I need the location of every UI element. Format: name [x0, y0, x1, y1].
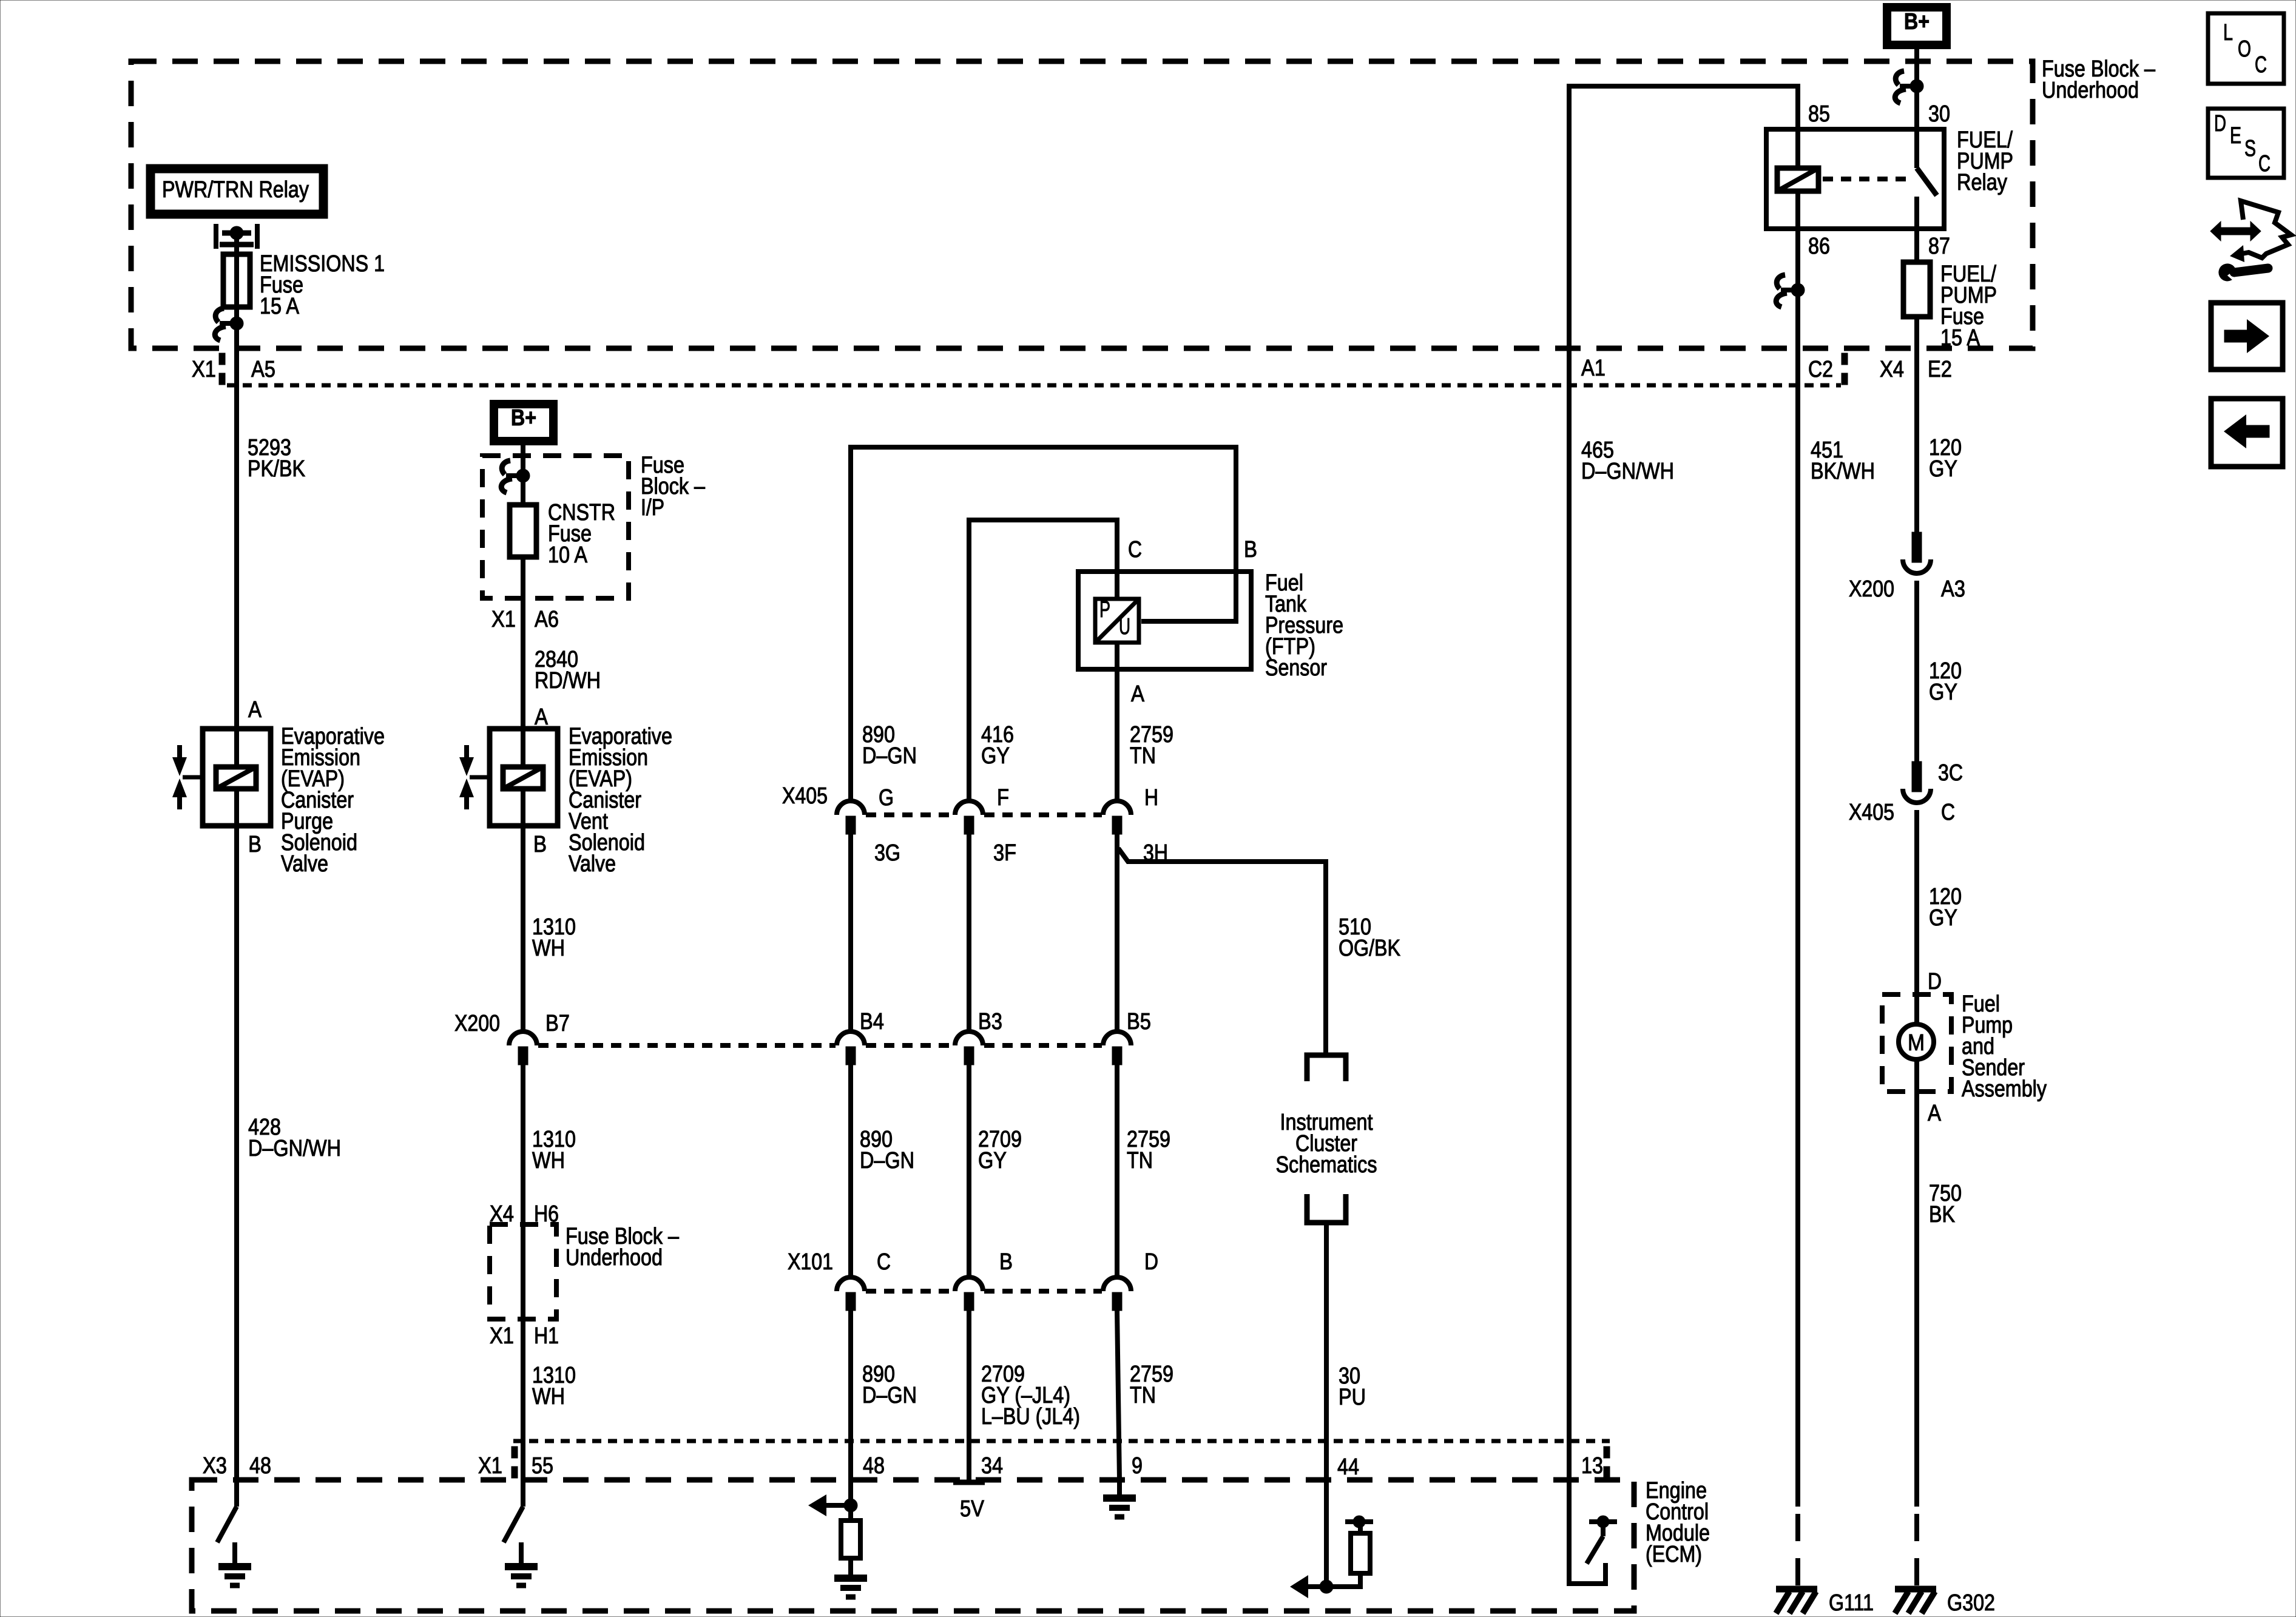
wire label 750 BK [1929, 1181, 1962, 1227]
svg-text:GY: GY [1929, 680, 1957, 705]
wire 750 dashed tail to G302 [1914, 1514, 1919, 1589]
svg-text:TN: TN [1127, 1148, 1153, 1173]
svg-text:3F: 3F [993, 840, 1016, 866]
connector label X1 A5 [192, 357, 275, 382]
fuse block underhood label [2042, 56, 2156, 103]
wire 2759 TN to ECM [1117, 1311, 1119, 1480]
sidebar jumper harness icon [2210, 201, 2291, 281]
wire label 2759 TN row2 [1127, 1127, 1170, 1173]
svg-text:X3: X3 [203, 1453, 227, 1479]
svg-text:GY: GY [1929, 905, 1957, 931]
sidebar DESC icon [2208, 109, 2284, 178]
connector row X200 dashed link [538, 1043, 836, 1048]
relay internal dashed link [1823, 177, 1911, 181]
sidebar back arrow icon [2211, 399, 2283, 467]
connector dash pair X1-55 [512, 1447, 518, 1478]
off-page connector from instrument cluster bottom [1307, 1194, 1346, 1223]
connector row X101 dashed link [866, 1289, 954, 1294]
svg-text:G: G [879, 785, 894, 811]
relay coil [1777, 129, 1818, 229]
svg-text:D–GN/WH: D–GN/WH [248, 1136, 341, 1161]
wire label 2709 GY row2 [978, 1127, 1022, 1173]
connector dash pair C2 [1842, 353, 1848, 385]
wire 451 from relay 86 down [1795, 229, 1800, 1507]
FUEL/PUMP relay label [1957, 127, 2013, 195]
fuel pump and sender label [1962, 991, 2047, 1102]
svg-text:E2: E2 [1928, 357, 1952, 382]
connector X405 F [955, 801, 983, 834]
wire label 30 PU [1339, 1363, 1366, 1410]
fuel tank pressure sensor box [1078, 572, 1251, 669]
wire 451 dashed tail to G111 [1795, 1514, 1800, 1589]
connector X200 A3 [1903, 532, 1931, 573]
svg-text:B5: B5 [1127, 1009, 1151, 1035]
EVAP purge valve label [281, 724, 385, 877]
fuse block output dotted line [227, 383, 1841, 388]
ECM pin label X1 55 [478, 1453, 553, 1479]
svg-text:H: H [1144, 785, 1158, 811]
fuse block underhood pass-through label [566, 1224, 680, 1271]
svg-text:O: O [2238, 36, 2251, 62]
svg-text:P: P [1099, 597, 1110, 623]
EVAP canister purge solenoid valve [172, 729, 271, 826]
svg-text:A3: A3 [1941, 576, 1965, 602]
wire label 890 D-GN row2 [860, 1127, 914, 1173]
wire 120 GY between connectors [1914, 581, 1919, 766]
svg-text:86: 86 [1808, 234, 1830, 259]
connector label X4 H6 [490, 1201, 559, 1227]
svg-text:Sensor: Sensor [1265, 655, 1327, 681]
svg-text:B: B [533, 832, 547, 857]
wire label 2759 TN row3 [1130, 1362, 1173, 1408]
connector label X1 A6 [491, 607, 559, 632]
svg-text:I/P: I/P [641, 495, 664, 521]
svg-text:L–BU (JL4): L–BU (JL4) [981, 1404, 1080, 1430]
ground G302 [1895, 1589, 1936, 1613]
wire from CNSTR fuse to EVAP vent valve [521, 557, 525, 1030]
svg-text:Valve: Valve [569, 851, 616, 877]
ECM internal driver switch pin 13 [1569, 1480, 1617, 1584]
svg-text:PWR/TRN Relay: PWR/TRN Relay [162, 177, 309, 203]
svg-text:D–GN: D–GN [862, 1383, 917, 1408]
svg-text:34: 34 [981, 1453, 1003, 1479]
svg-text:E: E [2230, 123, 2241, 149]
svg-text:C2: C2 [1808, 357, 1833, 382]
svg-text:C: C [2258, 151, 2271, 177]
svg-text:B4: B4 [860, 1009, 884, 1035]
wire 890 D-GN lower segment [848, 1065, 853, 1276]
PWR/TRN relay label box [150, 169, 323, 214]
svg-text:A6: A6 [535, 607, 559, 632]
svg-text:X200: X200 [454, 1011, 500, 1036]
wire 750 BK from pump down [1914, 1059, 1919, 1507]
svg-text:Valve: Valve [281, 851, 328, 877]
pin label X4 E2 [1880, 357, 1952, 382]
svg-text:TN: TN [1130, 1383, 1156, 1408]
svg-text:B+: B+ [1904, 9, 1930, 35]
connector X405 H [1103, 801, 1131, 834]
fuel tank pressure sensor label [1265, 570, 1343, 681]
wire 890 D-GN to ECM [848, 1311, 853, 1480]
ECM 5V reference terminator pin 34 [953, 1482, 985, 1522]
wire through FTP sensor to pin A [1115, 601, 1119, 800]
svg-text:85: 85 [1808, 101, 1830, 127]
svg-text:15 A: 15 A [260, 294, 300, 319]
svg-text:WH: WH [532, 1148, 565, 1173]
svg-text:OG/BK: OG/BK [1339, 936, 1400, 961]
relay switch blade [1917, 168, 1937, 195]
svg-text:PK/BK: PK/BK [248, 456, 305, 482]
wire 2709 GY mid segment [967, 834, 971, 1030]
svg-text:3G: 3G [874, 840, 900, 866]
wire label 2840 RD/WH [535, 647, 601, 694]
svg-text:X1: X1 [490, 1323, 514, 1349]
wire 2709 GY to ECM [967, 1311, 971, 1480]
svg-text:10 A: 10 A [548, 542, 588, 568]
connector X200 B4 [837, 1031, 865, 1065]
svg-text:30: 30 [1928, 101, 1950, 127]
wire 890 D-GN mid segment [848, 834, 853, 1030]
svg-text:X101: X101 [788, 1249, 833, 1275]
svg-text:D–GN: D–GN [862, 743, 917, 769]
wire 416 GY top run to FTP sensor C [969, 520, 1117, 800]
wire label 2709 GY JL4 row3 [981, 1362, 1080, 1430]
svg-text:5V: 5V [960, 1496, 985, 1522]
svg-text:C: C [1128, 537, 1142, 562]
ECM internal switch to ground pin 55 [504, 1480, 538, 1585]
svg-text:44: 44 [1337, 1454, 1359, 1480]
ECM internal ground pin 9 [1103, 1480, 1136, 1517]
svg-text:48: 48 [249, 1453, 271, 1479]
svg-text:D–GN: D–GN [860, 1148, 914, 1173]
svg-text:Underhood: Underhood [2042, 78, 2139, 103]
svg-text:55: 55 [532, 1453, 553, 1479]
wire 120 GY from fuse to pump [1914, 317, 1919, 534]
svg-text:B: B [999, 1249, 1013, 1275]
clip hook below EMISSIONS fuse [215, 308, 243, 340]
wire 890 D-GN top run to FTP sensor B [851, 447, 1236, 800]
off-page connector to instrument cluster top [1307, 1055, 1346, 1081]
svg-text:GY: GY [981, 743, 1010, 769]
battery feed B+ box left [494, 404, 553, 441]
svg-text:X1: X1 [192, 357, 216, 382]
connector X101 B [955, 1277, 983, 1311]
sidebar forward arrow icon [2211, 303, 2283, 370]
ECM internal switch to ground pin 48 [217, 1480, 251, 1585]
wire label 5293 PK/BK [248, 435, 305, 482]
clip hook at CNSTR fuse feed [501, 461, 530, 493]
fuse label FUEL/PUMP 15 A [1940, 262, 1997, 351]
engine control module dashed outline [192, 1480, 1634, 1611]
svg-text:C: C [2255, 52, 2267, 78]
svg-text:D–GN/WH: D–GN/WH [1581, 459, 1674, 484]
wire 1310 WH mid segment [521, 1065, 525, 1480]
ECM input dotted line [513, 1439, 1610, 1443]
connector X101 C [837, 1277, 865, 1311]
svg-text:RD/WH: RD/WH [535, 668, 601, 694]
wire 2709 GY lower segment [967, 1065, 971, 1276]
connector label X405 C [1849, 800, 1955, 825]
svg-text:TN: TN [1130, 743, 1156, 769]
wire label 2759 TN row1 [1130, 722, 1173, 769]
svg-text:B3: B3 [978, 1009, 1002, 1035]
bus tap bracket for PWR/TRN relay [216, 224, 257, 249]
ECM internal sense resistor pin 44 [1290, 1480, 1373, 1598]
svg-text:A: A [248, 697, 262, 723]
fuse block I/P dashed outline [482, 456, 629, 598]
wire 120 GY to fuel pump [1914, 810, 1919, 1025]
connector X101 D [1103, 1277, 1131, 1311]
svg-text:B7: B7 [545, 1011, 570, 1036]
instrument cluster schematics label [1276, 1110, 1377, 1178]
svg-text:GY: GY [1929, 456, 1957, 482]
svg-text:D: D [1928, 969, 1942, 994]
wire label 510 OG/BK [1339, 914, 1400, 961]
wire 2759 TN mid segment [1115, 834, 1119, 1030]
wire label 120 GY middle [1929, 658, 1962, 705]
fuse FUEL/PUMP [1903, 262, 1930, 317]
fuse label EMISSIONS 1 15 A [260, 251, 385, 319]
wire label 451 BK/WH [1811, 437, 1875, 484]
relay switch output to pin 87 [1914, 197, 1919, 262]
battery feed B+ box top right [1887, 7, 1947, 45]
connector label X200 B7 [454, 1011, 570, 1036]
connector X200 B7 [509, 1031, 537, 1065]
clip hook on wire 451 [1776, 275, 1805, 307]
fuse CNSTR [510, 505, 536, 557]
pressure transducer P/U symbol [1095, 597, 1139, 643]
wire from B+ to relay 30 [1914, 45, 1919, 168]
wire 465 D-GN/WH from ECM 13 up to relay 85 [1569, 86, 1798, 1480]
wire label 120 GY lower [1929, 884, 1962, 931]
fuel pump motor symbol [1899, 1024, 1934, 1059]
svg-text:G302: G302 [1947, 1590, 1995, 1616]
FUEL/PUMP relay box [1766, 129, 1944, 229]
wire from B+ into fuse block I/P [521, 441, 525, 505]
svg-text:D: D [1144, 1249, 1158, 1275]
svg-text:C: C [1941, 800, 1955, 825]
svg-text:L: L [2223, 20, 2233, 46]
ground G111 [1776, 1589, 1817, 1613]
wire label 890 D-GN row1 [862, 722, 917, 769]
svg-text:A5: A5 [251, 357, 275, 382]
connector X405 G [837, 801, 865, 834]
svg-text:H1: H1 [534, 1323, 559, 1349]
connector X200 B3 [955, 1031, 983, 1065]
svg-text:Underhood: Underhood [566, 1245, 663, 1271]
engine control module label [1646, 1478, 1710, 1567]
svg-text:Relay: Relay [1957, 170, 2007, 195]
wire label 465 D-GN/WH [1581, 437, 1674, 484]
connector row X405 dashed link [866, 812, 954, 817]
svg-text:WH: WH [532, 1384, 565, 1409]
wire 30 PU to ECM pin 44 [1324, 1223, 1329, 1480]
wire label 1310 WH middle [532, 1127, 576, 1173]
wire 5293 PK/BK down to EVAP purge valve [234, 385, 239, 1480]
fuse EMISSIONS 1 [223, 254, 250, 307]
connector X405 C [1903, 761, 1931, 803]
connector dash pair 13 [1604, 1447, 1610, 1478]
svg-text:A1: A1 [1581, 356, 1606, 381]
svg-text:13: 13 [1581, 1453, 1603, 1479]
svg-text:U: U [1119, 614, 1130, 640]
svg-text:A: A [1131, 681, 1145, 707]
svg-text:15 A: 15 A [1940, 325, 1980, 351]
svg-text:(ECM): (ECM) [1646, 1542, 1702, 1567]
svg-text:F: F [997, 785, 1009, 811]
fuse label CNSTR 10 A [548, 500, 615, 568]
svg-text:A: A [1928, 1101, 1942, 1126]
connector X200 B5 [1103, 1031, 1131, 1065]
svg-text:X200: X200 [1849, 576, 1894, 602]
svg-text:87: 87 [1928, 234, 1950, 259]
connector label X200 A3 [1849, 576, 1965, 602]
svg-text:PU: PU [1339, 1385, 1366, 1410]
fuse block I/P label [641, 453, 706, 521]
wire 5293 from PWR/TRN tap to fuse block exit [234, 233, 239, 385]
wire label 428 D-GN/WH [248, 1115, 341, 1161]
EVAP vent valve label [569, 724, 672, 877]
svg-text:B: B [1244, 537, 1257, 562]
wire label 1310 WH upper [532, 914, 576, 961]
svg-text:X1: X1 [478, 1453, 502, 1479]
svg-text:B: B [248, 832, 262, 857]
svg-text:M: M [1908, 1030, 1925, 1056]
svg-text:WH: WH [532, 936, 565, 961]
ECM internal pull-down resistor pin 48 [808, 1480, 867, 1597]
wire label 416 GY row1 [981, 722, 1014, 769]
svg-text:GY: GY [978, 1148, 1007, 1173]
connector label X1 H1 [490, 1323, 559, 1349]
svg-text:S: S [2244, 136, 2256, 161]
svg-text:G111: G111 [1829, 1590, 1874, 1616]
svg-text:Assembly: Assembly [1962, 1076, 2047, 1102]
svg-text:D: D [2214, 111, 2226, 137]
connector dash pair X1-A5 [219, 353, 225, 385]
wire 2759 TN lower segment [1115, 1065, 1119, 1276]
fuse block underhood pass-through dashed box [490, 1224, 556, 1319]
svg-text:Schematics: Schematics [1276, 1152, 1377, 1178]
wire label 890 D-GN row3 [862, 1362, 917, 1408]
svg-text:B+: B+ [511, 405, 536, 431]
EVAP canister vent solenoid valve [459, 729, 558, 826]
fuel pump and sender dashed box [1882, 994, 1951, 1092]
sidebar LOC icon [2208, 13, 2284, 84]
branch wire 510 OG/BK to instrument cluster [1118, 848, 1326, 1054]
fuse block underhood dashed outline [131, 61, 2033, 348]
wire label 120 GY upper [1929, 435, 1962, 482]
svg-text:3C: 3C [1938, 760, 1963, 786]
clip hook at relay pin 30 [1895, 71, 1923, 103]
svg-text:X4: X4 [1880, 357, 1904, 382]
svg-text:C: C [877, 1249, 891, 1275]
svg-text:BK: BK [1929, 1202, 1955, 1227]
svg-text:X405: X405 [782, 783, 828, 809]
svg-text:X1: X1 [491, 607, 516, 632]
ECM pin label X3 48 [203, 1453, 271, 1479]
svg-text:9: 9 [1132, 1453, 1143, 1479]
svg-text:BK/WH: BK/WH [1811, 459, 1875, 484]
svg-text:X405: X405 [1849, 800, 1894, 825]
wire label 1310 WH lower [532, 1363, 576, 1409]
svg-text:48: 48 [863, 1453, 885, 1479]
